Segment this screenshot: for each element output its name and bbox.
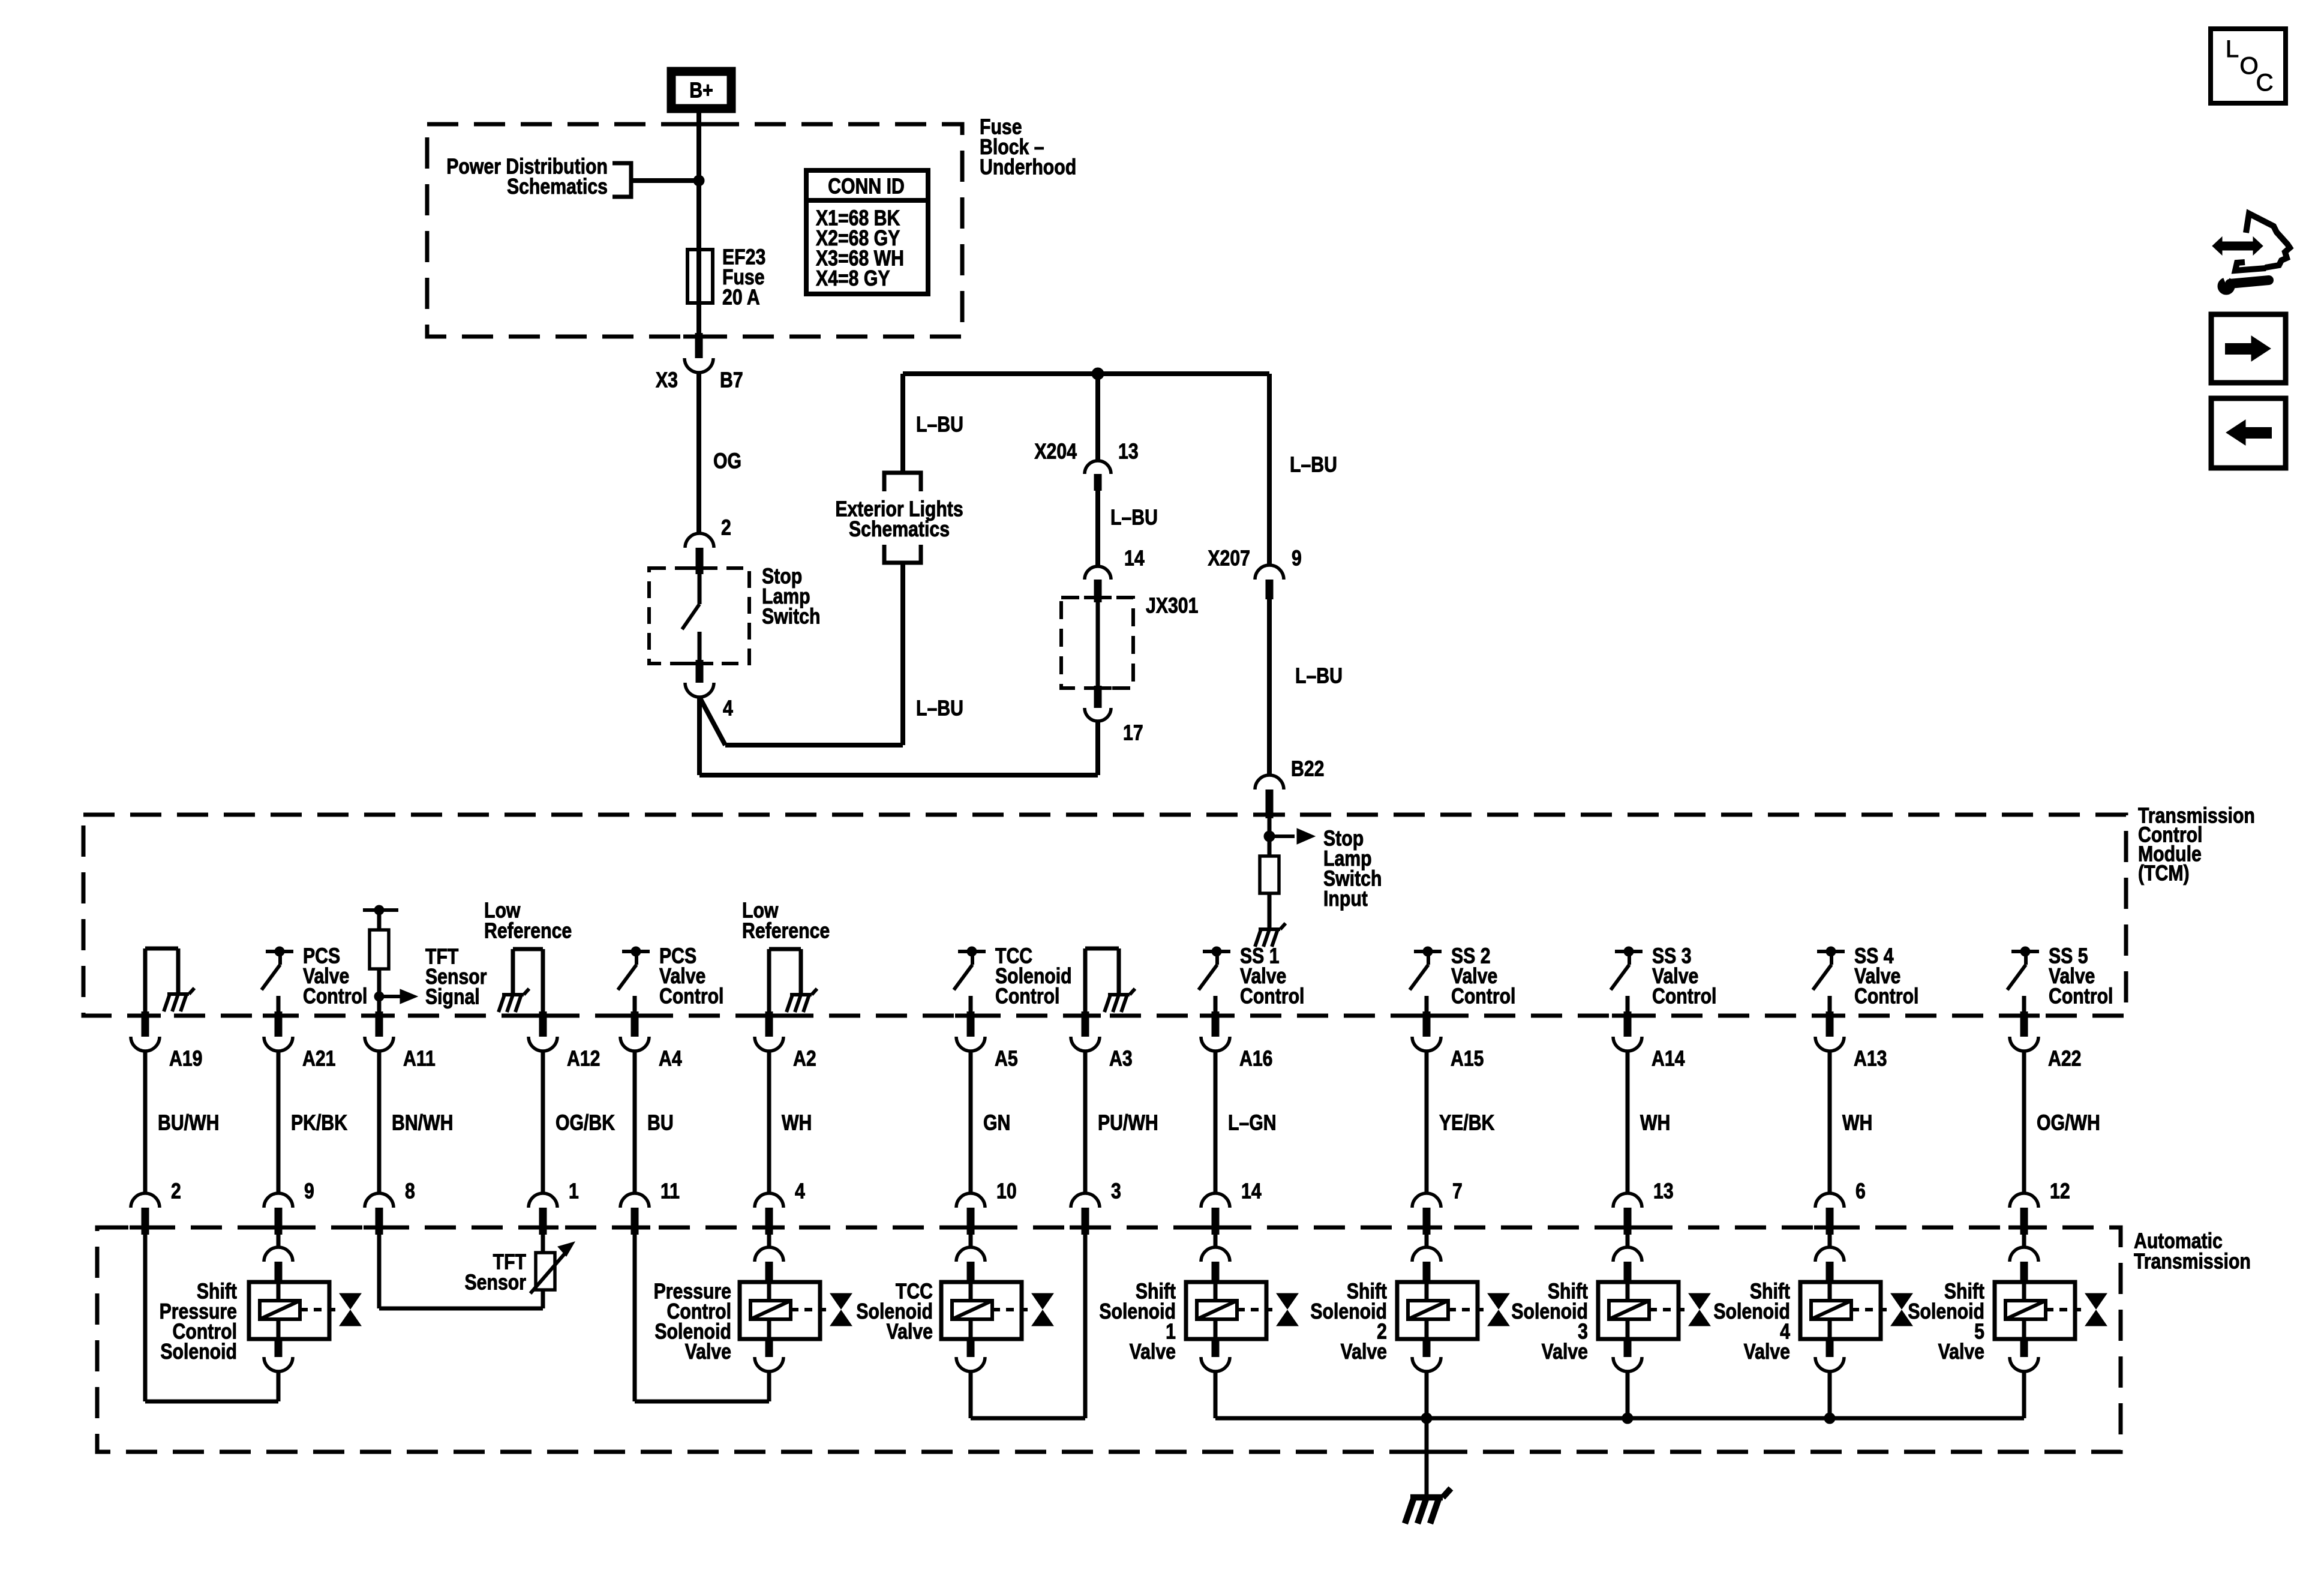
switch blade bbox=[1830, 951, 1833, 965]
wire OG bbox=[696, 373, 701, 534]
svg-text:Schematics: Schematics bbox=[849, 517, 950, 541]
wire OG/BK bbox=[541, 1051, 545, 1194]
stop lamp input resistor bbox=[1260, 856, 1279, 893]
svg-text:Control: Control bbox=[659, 984, 723, 1008]
svg-text:B+: B+ bbox=[689, 79, 713, 103]
solenoid top connector bbox=[956, 1247, 985, 1262]
svg-text:2: 2 bbox=[171, 1179, 181, 1203]
TCM pin A14 connector bbox=[1624, 1011, 1632, 1037]
TCM pin A12 connector bbox=[539, 1011, 547, 1037]
stop lamp switch bbox=[698, 574, 702, 604]
wire L–GN bbox=[1214, 1051, 1218, 1194]
svg-text:A4: A4 bbox=[659, 1047, 682, 1071]
switch lower contact bbox=[1214, 996, 1218, 1014]
svg-text:Solenoid: Solenoid bbox=[1099, 1299, 1176, 1323]
switch lower contact bbox=[633, 996, 637, 1014]
svg-text:4: 4 bbox=[795, 1179, 805, 1203]
TCM pin A22 connector bbox=[2020, 1011, 2028, 1037]
solenoid body bbox=[1800, 1282, 1881, 1339]
wire right branch L-BU bbox=[1267, 374, 1272, 566]
A19 internal ground link bbox=[143, 948, 148, 1014]
switch pivot dot bbox=[1624, 947, 1634, 956]
switch blade bbox=[2024, 951, 2028, 965]
ground A3 bbox=[1104, 989, 1135, 1012]
svg-text:PU/WH: PU/WH bbox=[1098, 1111, 1158, 1135]
TFT sensor loop wire bbox=[377, 1235, 382, 1308]
svg-text:B22: B22 bbox=[1291, 757, 1324, 781]
svg-text:8: 8 bbox=[405, 1179, 415, 1203]
TFT sensor signal arrow bbox=[384, 995, 400, 998]
shift solenoid 2 return bbox=[1425, 1371, 1429, 1418]
svg-text:Solenoid: Solenoid bbox=[1310, 1299, 1387, 1323]
switch contact bar bbox=[1615, 950, 1643, 953]
TFT sensor signal resistor A11 bbox=[363, 908, 398, 912]
svg-text:(TCM): (TCM) bbox=[2138, 861, 2190, 885]
wrench icon bbox=[2218, 278, 2235, 295]
wire L-BU to JX301 bbox=[1095, 491, 1100, 566]
transmission pin 7 connector bbox=[1412, 1193, 1441, 1208]
solenoid coil bbox=[1408, 1301, 1448, 1319]
shift pressure control solenoid feed bbox=[143, 1235, 148, 1401]
svg-text:2: 2 bbox=[721, 516, 731, 540]
svg-text:Sensor: Sensor bbox=[465, 1271, 527, 1295]
solenoid bottom connector bbox=[1212, 1337, 1220, 1357]
svg-text:Transmission: Transmission bbox=[2134, 1250, 2251, 1274]
switch pivot dot bbox=[275, 947, 284, 956]
ground A12 bbox=[499, 989, 529, 1012]
svg-text:17: 17 bbox=[1123, 721, 1143, 745]
svg-text:A5: A5 bbox=[995, 1047, 1018, 1071]
wire into solenoid bbox=[767, 1235, 771, 1248]
connector pin 17 bbox=[1094, 686, 1102, 708]
svg-text:OG/BK: OG/BK bbox=[556, 1111, 615, 1135]
transmission pin 12 connector bbox=[2010, 1193, 2038, 1208]
solenoid body bbox=[740, 1282, 820, 1339]
solenoid bottom connector bbox=[2020, 1337, 2028, 1357]
svg-text:L–BU: L–BU bbox=[1290, 453, 1337, 477]
wire into shift solenoid 3 bbox=[1626, 1235, 1630, 1248]
wire into TFT sensor bbox=[541, 1235, 545, 1253]
forward arrow box bbox=[2211, 314, 2286, 383]
solenoid coil bbox=[952, 1301, 992, 1319]
wire OG/WH bbox=[2022, 1051, 2026, 1194]
valve symbol bbox=[340, 1293, 361, 1309]
svg-text:L–BU: L–BU bbox=[916, 697, 963, 721]
ground transmission case bbox=[1405, 1488, 1451, 1524]
fuse EF23 20 A bbox=[687, 250, 713, 303]
top bus wire bbox=[903, 371, 1269, 376]
svg-text:Switch: Switch bbox=[762, 605, 820, 629]
A2 low reference link bbox=[767, 949, 771, 1014]
wire from pin 4 down bbox=[697, 697, 702, 775]
solenoid top connector bbox=[755, 1247, 783, 1262]
solenoid coil bbox=[1609, 1301, 1649, 1319]
solenoid bottom connector bbox=[275, 1337, 283, 1357]
wire PK/BK bbox=[277, 1051, 281, 1194]
shift solenoid 4 return bbox=[1828, 1371, 1832, 1418]
transmission pin 13 connector bbox=[1613, 1193, 1642, 1208]
TCM pin A5 connector bbox=[967, 1011, 975, 1037]
solenoid top connector bbox=[2010, 1247, 2038, 1262]
solenoid top connector bbox=[264, 1247, 293, 1262]
svg-text:A11: A11 bbox=[403, 1047, 436, 1071]
battery feed B+ terminal bbox=[671, 71, 731, 109]
svg-text:L–GN: L–GN bbox=[1228, 1111, 1277, 1135]
svg-text:Underhood: Underhood bbox=[980, 155, 1076, 179]
solenoid top connector bbox=[1613, 1247, 1642, 1262]
splice JX301 box bbox=[1061, 598, 1133, 688]
switch pivot dot bbox=[631, 947, 641, 956]
wire WH bbox=[1828, 1051, 1832, 1194]
svg-text:WH: WH bbox=[1640, 1111, 1670, 1135]
transmission pin 8 connector bbox=[365, 1193, 394, 1208]
svg-text:Input: Input bbox=[1323, 887, 1368, 911]
wire YE/BK bbox=[1425, 1051, 1429, 1194]
wire BU/WH bbox=[143, 1051, 148, 1194]
svg-text:Solenoid: Solenoid bbox=[1713, 1299, 1790, 1323]
TCM pin A4 connector bbox=[631, 1011, 639, 1037]
ground A2 bbox=[786, 989, 817, 1012]
svg-text:3: 3 bbox=[1111, 1179, 1121, 1203]
solenoid body bbox=[249, 1282, 329, 1339]
svg-text:Valve: Valve bbox=[1938, 1340, 1984, 1364]
switch lower contact bbox=[2022, 996, 2026, 1014]
switch contact bar bbox=[1414, 950, 1442, 953]
pressure control solenoid valve feed bbox=[633, 1235, 637, 1401]
svg-text:X3: X3 bbox=[656, 368, 678, 392]
svg-text:Valve: Valve bbox=[1744, 1340, 1790, 1364]
stop lamp switch input wire bbox=[1268, 818, 1272, 856]
svg-text:BU/WH: BU/WH bbox=[158, 1111, 219, 1135]
wire L-BU down to B22 bbox=[1267, 599, 1272, 776]
solenoid bottom connector bbox=[1423, 1337, 1431, 1357]
svg-text:WH: WH bbox=[1842, 1111, 1872, 1135]
svg-text:Reference: Reference bbox=[484, 919, 572, 943]
node power distribution tap bbox=[693, 175, 704, 186]
solenoid body bbox=[1186, 1282, 1266, 1339]
svg-text:Control: Control bbox=[1652, 984, 1716, 1008]
svg-text:A22: A22 bbox=[2048, 1047, 2081, 1071]
solenoid body bbox=[941, 1282, 1022, 1339]
wire GN bbox=[969, 1051, 973, 1194]
svg-text:CONN ID: CONN ID bbox=[828, 175, 905, 199]
wire BN/WH bbox=[377, 1051, 382, 1194]
TCC solenoid return wire bbox=[969, 1371, 973, 1418]
wire PU/WH bbox=[1083, 1051, 1088, 1194]
back arrow box bbox=[2211, 398, 2286, 468]
solenoid body bbox=[1397, 1282, 1478, 1339]
svg-text:BN/WH: BN/WH bbox=[392, 1111, 453, 1135]
transmission pin 9 connector bbox=[264, 1193, 293, 1208]
svg-text:A3: A3 bbox=[1109, 1047, 1133, 1071]
valve symbol bbox=[1277, 1293, 1298, 1309]
svg-text:A19: A19 bbox=[169, 1047, 202, 1071]
svg-text:BU: BU bbox=[647, 1111, 674, 1135]
svg-text:Signal: Signal bbox=[425, 985, 480, 1009]
svg-text:6: 6 bbox=[1855, 1179, 1866, 1203]
TCM pin A15 connector bbox=[1423, 1011, 1431, 1037]
stop lamp switch input arrow bbox=[1274, 834, 1295, 838]
switch lower contact bbox=[1828, 996, 1832, 1014]
svg-text:L–BU: L–BU bbox=[1110, 506, 1158, 530]
svg-text:L: L bbox=[2226, 36, 2239, 62]
LOC legend box bbox=[2211, 29, 2286, 103]
svg-text:A13: A13 bbox=[1854, 1047, 1887, 1071]
switch lower contact bbox=[969, 996, 973, 1014]
TCM pin A2 connector bbox=[765, 1011, 773, 1037]
node stop lamp input branch bbox=[1264, 831, 1275, 842]
wire through JX301 bbox=[1096, 602, 1100, 686]
valve symbol bbox=[1488, 1293, 1509, 1309]
wire into shift solenoid 2 bbox=[1425, 1235, 1429, 1248]
switch pivot dot bbox=[1423, 947, 1433, 956]
svg-text:Control: Control bbox=[2049, 984, 2113, 1008]
svg-text:14: 14 bbox=[1124, 547, 1145, 571]
wire B+ to fuse bbox=[696, 109, 701, 337]
svg-text:7: 7 bbox=[1452, 1179, 1463, 1203]
transmission pin 3 connector bbox=[1071, 1193, 1100, 1208]
wire WH bbox=[1626, 1051, 1630, 1194]
svg-text:GN: GN bbox=[983, 1111, 1010, 1135]
svg-text:Solenoid: Solenoid bbox=[1908, 1299, 1984, 1323]
svg-text:OG/WH: OG/WH bbox=[2037, 1111, 2100, 1135]
wire BU bbox=[633, 1051, 637, 1194]
TCM pin A19 connector bbox=[142, 1011, 149, 1037]
svg-text:A15: A15 bbox=[1451, 1047, 1484, 1071]
node top bus junction bbox=[1092, 368, 1104, 380]
svg-text:12: 12 bbox=[2050, 1179, 2070, 1203]
svg-text:JX301: JX301 bbox=[1146, 594, 1198, 618]
valve symbol bbox=[1891, 1293, 1912, 1309]
svg-text:X4=8 GY: X4=8 GY bbox=[816, 266, 890, 290]
svg-text:C: C bbox=[2256, 70, 2274, 96]
solenoid bottom connector bbox=[1826, 1337, 1834, 1357]
A3 ground link bbox=[1083, 948, 1088, 1014]
svg-text:PK/BK: PK/BK bbox=[291, 1111, 347, 1135]
svg-text:WH: WH bbox=[782, 1111, 812, 1135]
wire branch to exterior lights bbox=[699, 697, 725, 745]
switch pivot dot bbox=[967, 947, 977, 956]
svg-text:11: 11 bbox=[660, 1179, 680, 1203]
ground A19 bbox=[164, 988, 194, 1011]
TCM pin A11 connector bbox=[376, 1011, 383, 1037]
wire from 17 down to stop lamp feed bbox=[1095, 722, 1100, 775]
svg-text:OG: OG bbox=[713, 449, 741, 473]
TCM pin A16 connector bbox=[1212, 1011, 1220, 1037]
svg-text:Valve: Valve bbox=[1341, 1340, 1387, 1364]
switch blade bbox=[1628, 951, 1631, 965]
shift solenoid 5 return bbox=[2022, 1371, 2026, 1418]
transmission pin 1 connector bbox=[529, 1193, 557, 1208]
svg-text:9: 9 bbox=[304, 1179, 314, 1203]
TCM pin A21 connector bbox=[275, 1011, 283, 1037]
svg-text:Control: Control bbox=[1854, 984, 1918, 1008]
off-page reference Power Distribution Schematics bbox=[612, 163, 631, 197]
svg-text:Solenoid: Solenoid bbox=[160, 1340, 237, 1364]
transmission pin 10 connector bbox=[956, 1193, 985, 1208]
svg-text:Solenoid: Solenoid bbox=[1511, 1299, 1588, 1323]
connector pin 4 bbox=[696, 660, 704, 683]
solenoid body bbox=[1995, 1282, 2075, 1339]
svg-text:Control: Control bbox=[303, 984, 367, 1008]
wire into shift solenoid 5 bbox=[2022, 1235, 2026, 1248]
fuse block underhood box bbox=[427, 124, 962, 337]
svg-text:13: 13 bbox=[1118, 440, 1139, 464]
wire exterior lights up to bus bbox=[900, 374, 905, 473]
svg-text:B7: B7 bbox=[720, 368, 743, 392]
svg-text:L–BU: L–BU bbox=[1295, 664, 1343, 688]
transmission pin 4 connector bbox=[755, 1193, 783, 1208]
ground stop lamp input bbox=[1255, 923, 1286, 947]
stop lamp switch box bbox=[649, 568, 749, 664]
transmission pin 14 connector bbox=[1201, 1193, 1230, 1208]
switch pivot dot bbox=[2020, 947, 2030, 956]
svg-text:Control: Control bbox=[1451, 984, 1515, 1008]
transmission pin 6 connector bbox=[1815, 1193, 1844, 1208]
solenoid top connector bbox=[1201, 1247, 1230, 1262]
switch blade bbox=[635, 951, 638, 965]
switch contact bar bbox=[958, 950, 986, 953]
solenoid coil bbox=[260, 1301, 300, 1319]
svg-text:Reference: Reference bbox=[742, 919, 830, 943]
svg-text:Valve: Valve bbox=[887, 1320, 933, 1344]
switch contact bar bbox=[2011, 950, 2039, 953]
svg-text:Schematics: Schematics bbox=[507, 175, 608, 199]
TCM pin A3 connector bbox=[1082, 1011, 1089, 1037]
svg-text:A16: A16 bbox=[1239, 1047, 1272, 1071]
svg-text:9: 9 bbox=[1292, 547, 1302, 571]
TCM pin A13 connector bbox=[1826, 1011, 1834, 1037]
svg-text:1: 1 bbox=[569, 1179, 579, 1203]
switch lower contact bbox=[1626, 996, 1630, 1014]
Automatic Transmission box bbox=[97, 1227, 2121, 1452]
TFT sensor bbox=[536, 1253, 555, 1290]
svg-text:A14: A14 bbox=[1652, 1047, 1685, 1071]
solenoid bottom connector bbox=[1624, 1337, 1632, 1357]
svg-text:10: 10 bbox=[996, 1179, 1017, 1203]
CONN ID table bbox=[806, 170, 928, 294]
svg-text:YE/BK: YE/BK bbox=[1439, 1111, 1494, 1135]
solenoid bottom connector bbox=[967, 1337, 975, 1357]
valve symbol bbox=[1689, 1293, 1710, 1309]
off-page reference Exterior Lights Schematics bbox=[884, 473, 921, 491]
transmission pin 2 connector bbox=[131, 1193, 160, 1208]
wire to power distribution bbox=[631, 178, 699, 183]
solenoid coil bbox=[750, 1301, 791, 1319]
svg-text:Valve: Valve bbox=[1542, 1340, 1588, 1364]
solenoid coil bbox=[1811, 1301, 1851, 1319]
transmission pin 11 connector bbox=[620, 1193, 649, 1208]
node SS2 ground tap bbox=[1421, 1413, 1432, 1424]
solenoid coil bbox=[1197, 1301, 1237, 1319]
node SS3 bus bbox=[1622, 1413, 1633, 1424]
Transmission Control Module box bbox=[83, 815, 2126, 1016]
switch lower contact bbox=[277, 996, 281, 1014]
switch pivot dot bbox=[1826, 947, 1836, 956]
solenoid bottom connector bbox=[765, 1337, 773, 1357]
connector X3 pin B7 bbox=[695, 333, 703, 358]
switch blade bbox=[1215, 951, 1219, 965]
switch contact bar bbox=[622, 950, 650, 953]
switch contact bar bbox=[266, 950, 293, 953]
shift solenoid 3 return bbox=[1626, 1371, 1630, 1418]
svg-text:Valve: Valve bbox=[685, 1340, 731, 1364]
solenoid top connector bbox=[1815, 1247, 1844, 1262]
vehicle diagnostic icon bbox=[2212, 237, 2263, 255]
wire L-BU to exterior lights bbox=[900, 563, 905, 745]
svg-text:4: 4 bbox=[723, 697, 733, 721]
svg-text:Valve: Valve bbox=[1130, 1340, 1176, 1364]
solenoid top connector bbox=[1412, 1247, 1441, 1262]
valve symbol bbox=[1032, 1293, 1053, 1309]
wire into shift solenoid 4 bbox=[1828, 1235, 1832, 1248]
svg-text:13: 13 bbox=[1653, 1179, 1674, 1203]
switch lower contact bbox=[1425, 996, 1429, 1014]
wire into TCC solenoid bbox=[969, 1235, 973, 1248]
valve symbol bbox=[830, 1293, 852, 1309]
switch pivot dot bbox=[1212, 947, 1221, 956]
valve symbol bbox=[2085, 1293, 2107, 1309]
svg-text:A2: A2 bbox=[793, 1047, 816, 1071]
node SS4 bus bbox=[1824, 1413, 1835, 1424]
svg-text:Control: Control bbox=[995, 984, 1059, 1008]
shift solenoid 1 return bbox=[1214, 1371, 1218, 1418]
svg-text:A21: A21 bbox=[302, 1047, 335, 1071]
shift solenoid common bus bbox=[1215, 1416, 2024, 1421]
wire WH bbox=[767, 1051, 771, 1194]
svg-text:14: 14 bbox=[1241, 1179, 1262, 1203]
solenoid body bbox=[1598, 1282, 1679, 1339]
svg-text:X204: X204 bbox=[1034, 440, 1077, 464]
wire into solenoid bbox=[277, 1235, 281, 1248]
svg-text:L–BU: L–BU bbox=[916, 413, 963, 437]
wire junction down to X204 bbox=[1095, 374, 1100, 461]
switch contact bar bbox=[1203, 950, 1230, 953]
node TFT signal bbox=[374, 992, 384, 1001]
svg-text:20 A: 20 A bbox=[722, 286, 760, 310]
switch blade bbox=[278, 951, 282, 965]
svg-text:A12: A12 bbox=[567, 1047, 600, 1071]
svg-text:Control: Control bbox=[1240, 984, 1304, 1008]
ground stem bbox=[1425, 1418, 1429, 1496]
switch blade bbox=[1427, 951, 1430, 965]
solenoid coil bbox=[2005, 1301, 2046, 1319]
A12 low reference link bbox=[541, 949, 545, 1014]
switch blade bbox=[971, 951, 974, 965]
svg-text:X207: X207 bbox=[1208, 547, 1250, 571]
switch contact bar bbox=[1817, 950, 1845, 953]
wire into shift solenoid 1 bbox=[1214, 1235, 1218, 1248]
